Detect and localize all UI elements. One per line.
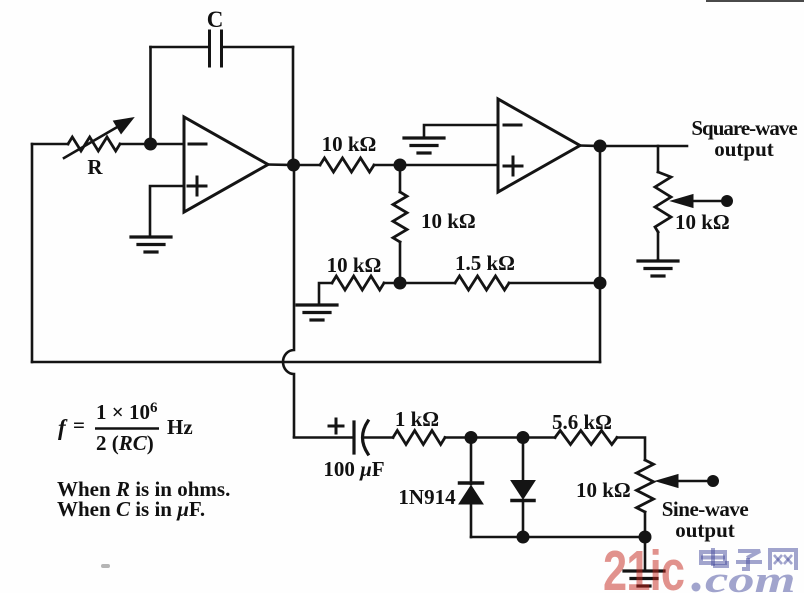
node junction D1 top xyxy=(465,431,478,444)
wire R5 to diode node xyxy=(445,436,523,439)
scan artifact gray dash xyxy=(101,564,110,568)
svg-text:10 kΩ: 10 kΩ xyxy=(576,478,631,502)
node junction R4 / right rail xyxy=(594,277,607,290)
ground sine output xyxy=(624,569,664,572)
wire U1 output node down with hop over feedback line xyxy=(283,165,294,437)
op-amp U1 xyxy=(184,117,268,212)
wire feedback-loop right vertical xyxy=(292,47,295,165)
resistor R1 10k xyxy=(320,158,374,172)
node junction R1 / R2 xyxy=(394,159,407,172)
svg-text:10 kΩ: 10 kΩ xyxy=(421,209,476,233)
resistor R2 10k vertical xyxy=(399,165,402,192)
svg-text:output: output xyxy=(714,137,774,161)
svg-text:1 kΩ: 1 kΩ xyxy=(395,407,439,431)
wire square-wave output xyxy=(600,145,687,148)
svg-text:1 × 106: 1 × 106 xyxy=(96,400,158,424)
watermark chinese 电子网 xyxy=(701,548,796,570)
diode D2 1N914 (cathode down) xyxy=(522,438,525,482)
node junction RV2 bottom xyxy=(639,531,652,544)
wire feedback-loop top left segment xyxy=(151,46,209,49)
wire 5.6k row xyxy=(523,436,555,439)
potentiometer RV1 10k xyxy=(655,172,671,232)
svg-text:10 kΩ: 10 kΩ xyxy=(327,253,382,277)
svg-text:1N914: 1N914 xyxy=(398,485,456,509)
potentiometer RV2 10k xyxy=(637,460,654,512)
wire branch to potentiometer RV1 xyxy=(657,146,660,172)
wire U1 plus input to ground xyxy=(150,186,184,236)
op-amp U2 xyxy=(498,99,580,192)
op-amp U2 plus pin xyxy=(504,165,522,168)
wire U1 output xyxy=(268,163,294,166)
wire feedback-loop top right segment xyxy=(223,46,293,49)
wire bottom return xyxy=(471,536,645,539)
wire feedback-loop left vertical xyxy=(149,47,152,144)
svg-text:C: C xyxy=(207,7,224,32)
resistor R4 1.5k xyxy=(455,276,509,290)
op-amp U2 minus pin xyxy=(504,124,521,127)
resistor R5 1k xyxy=(393,431,445,445)
capacitor C2 100uF polarity plus xyxy=(329,425,343,428)
diode D1 1N914 (cathode up) xyxy=(470,438,473,485)
wire R3 to node xyxy=(384,282,400,285)
potentiometer RV1 wiper arrow xyxy=(692,200,722,203)
node junction R / feedback xyxy=(144,138,157,151)
formula frequency equation xyxy=(57,400,230,521)
wire node to R1 xyxy=(294,164,320,167)
wire U2 output xyxy=(580,144,600,147)
node junction D2 top xyxy=(517,431,530,444)
resistor R3 10k xyxy=(332,276,384,290)
wire RV2 bottom to ground xyxy=(644,537,647,570)
op-amp U1 plus pin xyxy=(188,185,206,188)
svg-text:2 (RC): 2 (RC) xyxy=(96,431,154,455)
resistor R arrow xyxy=(64,126,119,158)
wire left rail horizontal into R xyxy=(32,143,68,146)
ground R3 xyxy=(297,303,337,306)
op-amp U1 minus pin xyxy=(189,143,206,146)
potentiometer RV1 wiper terminal dot xyxy=(721,195,733,207)
svg-text:1.5 kΩ: 1.5 kΩ xyxy=(455,251,515,275)
wire R4 to right rail xyxy=(509,282,600,285)
svg-text:Hz: Hz xyxy=(167,415,193,439)
wire R6 to potentiometer RV2 xyxy=(617,438,645,461)
svg-text:21ic: 21ic xyxy=(603,538,684,593)
wire R3 to ground leg xyxy=(319,283,332,304)
ground RV1 xyxy=(657,260,660,261)
wire C2 to R5 xyxy=(363,436,393,439)
svg-text:R: R xyxy=(87,155,103,179)
svg-text:5.6 kΩ: 5.6 kΩ xyxy=(552,410,612,434)
resistor R6 5.6k xyxy=(555,431,617,445)
wire R to inverting input xyxy=(120,143,184,146)
svg-text:100 μF: 100 μF xyxy=(323,457,384,481)
svg-text:com: com xyxy=(705,559,795,593)
svg-text:=: = xyxy=(73,413,85,437)
potentiometer RV2 wiper arrow xyxy=(676,480,708,483)
ground U1 plus input xyxy=(131,235,171,238)
wire right rail vertical xyxy=(599,146,602,362)
node junction D2 bottom xyxy=(517,531,530,544)
wire R1 to U2 plus input xyxy=(374,164,498,167)
node U2 output junction xyxy=(594,140,607,153)
wire U2 minus input to ground xyxy=(424,125,498,137)
ground U2 minus input xyxy=(404,136,444,139)
wire feedback bottom horizontal xyxy=(32,361,600,364)
capacitor C xyxy=(210,31,222,66)
watermark .com xyxy=(692,583,701,592)
svg-text:10 kΩ: 10 kΩ xyxy=(322,132,377,156)
resistor R (variable) xyxy=(68,137,120,151)
node U1 output junction xyxy=(287,159,300,172)
svg-text:10 kΩ: 10 kΩ xyxy=(675,210,730,234)
wire to coupling capacitor xyxy=(294,436,354,439)
wire node to R4 xyxy=(400,282,455,285)
potentiometer RV2 wiper terminal dot xyxy=(707,475,719,487)
scan artifact top right line xyxy=(706,0,804,2)
wire left rail vertical xyxy=(31,144,34,362)
node junction R2 / R3 / R4 xyxy=(394,277,407,290)
svg-text:When C is in μF.: When C is in μF. xyxy=(57,497,205,521)
capacitor C2 100uF xyxy=(352,422,355,453)
